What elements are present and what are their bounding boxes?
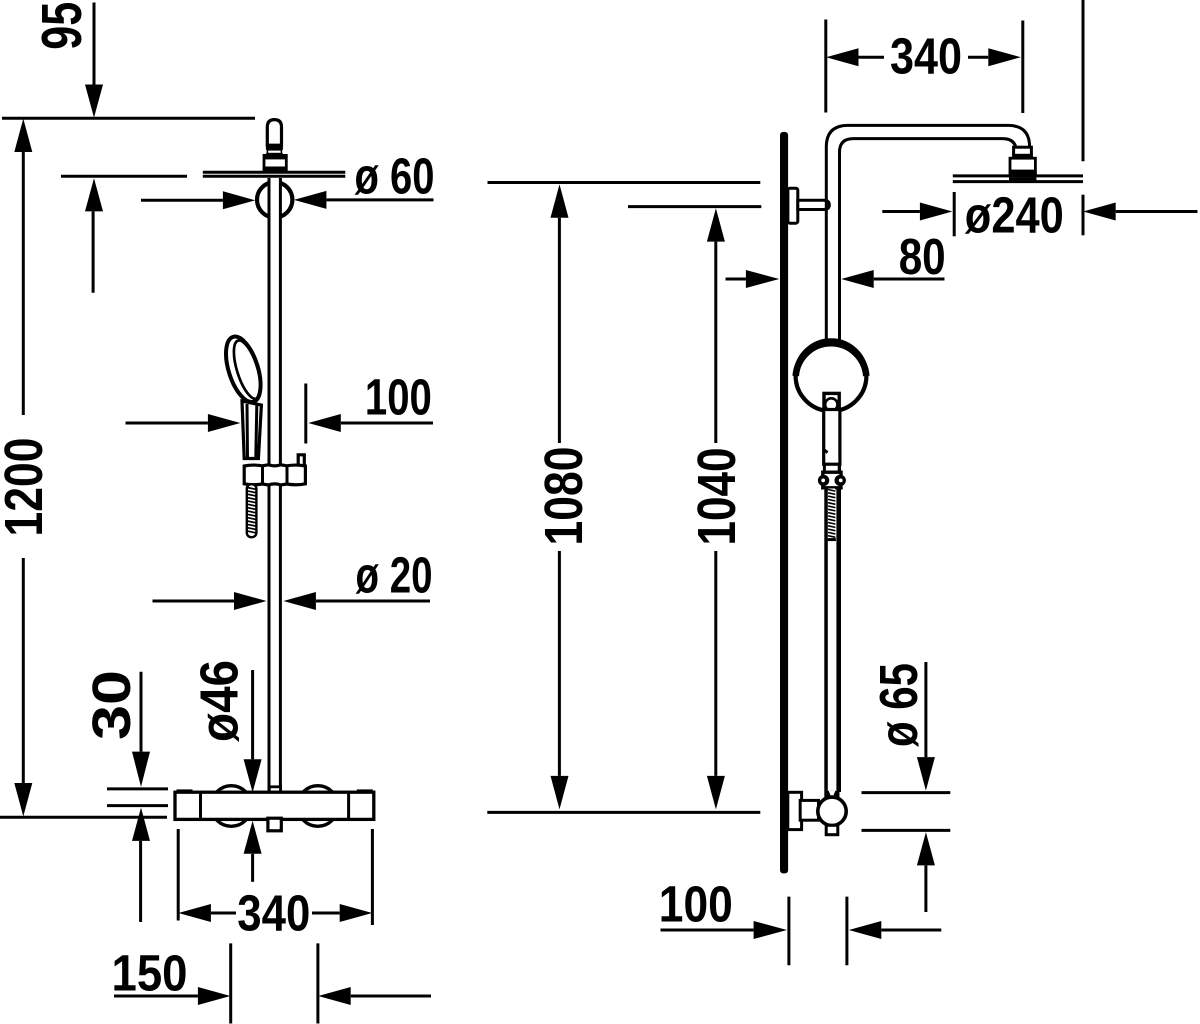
- svg-text:ø240: ø240: [965, 187, 1064, 244]
- handle cone connector: [824, 464, 839, 472]
- dim 1040 up arrow: [707, 208, 725, 241]
- svg-text:100: 100: [365, 369, 432, 426]
- dim 100 ext line: [304, 384, 307, 444]
- dim 100b right arrow: [849, 921, 882, 939]
- riser pipe (front): [268, 178, 280, 792]
- dim 95 down arrow: [85, 85, 103, 118]
- dim 30 tick lower: [107, 804, 168, 807]
- dim 100 right arrow: [308, 414, 341, 432]
- dim 340b left arrow: [178, 904, 211, 922]
- dim 100b left arrow: [754, 921, 787, 939]
- head disc side top line: [953, 174, 1083, 177]
- dim ø240 right arrow: [1083, 203, 1116, 221]
- dim 100b tick left: [787, 897, 790, 966]
- wall line: [780, 132, 788, 874]
- hose spring (front): [247, 484, 257, 537]
- svg-text:80: 80: [899, 228, 946, 285]
- upper wall bracket pin: [798, 200, 830, 209]
- dim 340t right arrow: [988, 48, 1021, 66]
- dim ø46 tail: [251, 854, 254, 882]
- dim 30 line: [140, 672, 143, 752]
- dim ø65 down arrow: [917, 757, 935, 791]
- dim 340t ext right: [1021, 21, 1024, 114]
- mixer body bar: [175, 792, 374, 819]
- diverter ball (side): [796, 340, 867, 411]
- svg-text:1200: 1200: [0, 438, 54, 537]
- lower wall bracket flange: [788, 792, 802, 829]
- svg-text:ø 65: ø 65: [869, 663, 929, 747]
- head disc side bottom line: [953, 180, 1083, 183]
- pipe connector nub: [269, 787, 280, 793]
- hose spring (side): [826, 488, 838, 797]
- dim ø60 left tail: [141, 199, 223, 202]
- dim 1040 line lower: [714, 551, 717, 776]
- svg-text:ø 20: ø 20: [356, 547, 433, 604]
- dim 150 right tail: [351, 995, 431, 998]
- dim 30 up arrow: [132, 808, 150, 841]
- cap ring dark: [266, 145, 283, 150]
- ref line bottom center: [487, 811, 760, 814]
- dim 150 left tail: [114, 995, 198, 998]
- dim ø20 right tail: [316, 600, 430, 603]
- mixer outlet below: [268, 818, 281, 831]
- top cap knob: [267, 120, 281, 146]
- dim ø240 left tail: [882, 210, 920, 213]
- dim 95 line: [93, 3, 96, 85]
- dim 1200 line upper: [22, 152, 25, 415]
- dim 1200 up arrow: [14, 119, 32, 152]
- dim 100b left tail: [661, 929, 754, 932]
- hand shower head inner line: [228, 337, 266, 401]
- holder bracket: [244, 465, 305, 485]
- collar dark bottom band: [263, 167, 288, 172]
- head stem nut narrow: [1014, 147, 1032, 158]
- dim 100b right tail: [881, 929, 941, 932]
- collar: [264, 155, 286, 171]
- dim 1200 line lower: [22, 558, 25, 783]
- dim 1080 line lower: [558, 551, 561, 776]
- dim 1080 line upper: [558, 218, 561, 443]
- dim ø20 right arrow: [283, 592, 316, 610]
- dim 340t left arrow: [826, 48, 859, 66]
- holder bracket division: [261, 466, 264, 484]
- dim ø46 down arrow: [244, 759, 262, 792]
- dim 100b tick right: [845, 897, 848, 966]
- mixer handle circle left: [211, 786, 252, 827]
- dim 340t right tail: [968, 56, 988, 59]
- dim 1080 up arrow: [551, 184, 569, 218]
- dim 340b ext left: [177, 829, 180, 921]
- svg-text:ø 60: ø 60: [355, 148, 435, 205]
- wire: [279, 178, 282, 792]
- dim 80 right arrow: [841, 270, 874, 288]
- dim ø60 right tail: [326, 198, 433, 201]
- dim 80 left tail: [726, 278, 746, 281]
- lower bracket pin: [800, 800, 818, 820]
- svg-text:100: 100: [659, 876, 733, 933]
- mixer end cap rim right: [357, 789, 373, 794]
- hose nut: [823, 472, 841, 488]
- ref line 1080 top: [488, 181, 761, 184]
- dim 95 up arrow: [85, 178, 103, 211]
- dim ø65 tail: [924, 865, 927, 912]
- upper wall bracket plate: [788, 188, 798, 223]
- riser pipe outer bend path: [826, 125, 1029, 792]
- dim 30 down arrow: [132, 752, 150, 787]
- dim ø60 left arrow: [223, 191, 256, 209]
- dim ø46 up arrow: [244, 821, 262, 854]
- dim 100 left tail: [126, 422, 208, 425]
- dim 340b right tail: [312, 912, 340, 915]
- cap ring dark 2: [266, 153, 283, 155]
- dim 150 ext left: [229, 943, 232, 1023]
- mixer outlet slot: [270, 823, 280, 826]
- svg-text:1040: 1040: [687, 448, 747, 546]
- dim 80 left arrow: [746, 270, 779, 288]
- mixer handle circle right: [298, 786, 339, 827]
- hand shower handle (side): [824, 410, 840, 465]
- shower head disc front bottom line: [203, 175, 345, 178]
- bottom reference line left: [0, 816, 167, 819]
- dim 340t left tail: [859, 56, 885, 59]
- hose nut ear left: [818, 475, 829, 486]
- holder bracket division 2: [286, 466, 289, 484]
- head plane reference line: [61, 175, 187, 178]
- dim 1040 line upper: [714, 242, 717, 443]
- dim ø240 right tail: [1116, 210, 1198, 213]
- dim ø65 line: [924, 662, 927, 757]
- dim ø240 left arrow: [920, 203, 953, 221]
- handle step line: [824, 450, 828, 453]
- handle inner line 2: [254, 405, 258, 458]
- RIGHT VIEW: [780, 125, 1083, 873]
- dim ø20 left arrow: [234, 592, 267, 610]
- hose nut ear right: [835, 475, 846, 486]
- dim 80 right tail: [874, 278, 945, 281]
- diverter ball (front): [257, 182, 292, 217]
- wire: [268, 178, 271, 792]
- hose elbow ball: [825, 791, 840, 799]
- shower head disc front top line: [203, 171, 345, 174]
- svg-text:30: 30: [82, 670, 142, 740]
- dim 340b right arrow: [340, 904, 373, 922]
- svg-text:1080: 1080: [534, 447, 594, 546]
- dim ø65 lower line: [862, 829, 951, 832]
- hand shower head outer: [219, 332, 267, 406]
- dim ø240 ext right upper: [1082, 0, 1085, 161]
- dim 340b left tail: [211, 912, 236, 915]
- LEFT VIEW: [175, 120, 374, 831]
- handle inner line: [246, 404, 250, 458]
- cap ring white: [267, 150, 281, 154]
- diverter ball thick top arc: [796, 343, 867, 376]
- dim 1200 down arrow: [14, 783, 32, 816]
- head disc under-stem shade: [1009, 177, 1036, 180]
- hose end white notch: [829, 791, 836, 799]
- head stem collar: [1010, 158, 1035, 174]
- dim 30 tail: [139, 841, 142, 922]
- dim ø46 line: [251, 670, 254, 759]
- dim ø240 ext left: [953, 192, 956, 236]
- dim 30 tick upper: [107, 787, 168, 790]
- mixer cap line right: [347, 792, 350, 819]
- svg-text:95: 95: [30, 2, 94, 50]
- hand shower handle: [242, 401, 261, 459]
- dim 95 up arrow tail: [92, 211, 95, 292]
- hose elbow ball circle: [818, 797, 846, 825]
- head stem collar dark bottom: [1009, 170, 1037, 175]
- dim ø65 up arrow: [917, 832, 935, 865]
- pin cover joint: [802, 802, 817, 818]
- svg-text:ø46: ø46: [190, 660, 250, 742]
- dim 340b ext right: [371, 829, 374, 925]
- mixer end cap rim left: [177, 789, 193, 794]
- dim 150 ext right: [316, 943, 319, 1023]
- svg-text:340: 340: [237, 885, 310, 942]
- holder hook: [298, 455, 304, 465]
- riser pipe inner bend path: [840, 139, 1017, 792]
- dim 100 right tail: [341, 422, 433, 425]
- dock inner blob: [825, 398, 837, 410]
- top reference line: [2, 117, 255, 120]
- dim 150 right arrow: [318, 987, 351, 1005]
- dim 1040 down arrow: [707, 776, 725, 810]
- dim ø60 right arrow: [294, 191, 327, 209]
- svg-text:340: 340: [890, 27, 962, 84]
- head stem nut dark band: [1012, 154, 1033, 158]
- dim ø20 left tail: [153, 600, 235, 603]
- dim 100 left arrow: [208, 414, 241, 432]
- ref line 1040 top: [628, 205, 761, 208]
- elbow nub below: [826, 825, 838, 834]
- dim ø65 upper line: [862, 791, 951, 794]
- dim 340t ext left: [824, 20, 827, 113]
- hand shower dock inside ball: [824, 393, 839, 410]
- dim 150 left arrow: [198, 987, 231, 1005]
- dim 1080 down arrow: [551, 776, 569, 810]
- collar dark top band: [264, 155, 286, 159]
- mixer cap line left: [199, 792, 202, 819]
- svg-text:150: 150: [112, 944, 188, 1001]
- dim ø240 ext right lower: [1082, 195, 1085, 236]
